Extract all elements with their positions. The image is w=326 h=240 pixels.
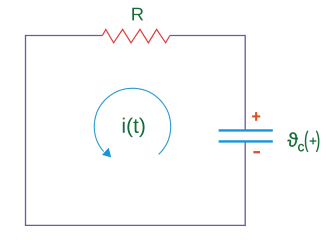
wire right upper to capacitor [244, 35, 246, 130]
capacitor top plate [219, 129, 273, 131]
current loop arc [94, 88, 170, 154]
resistor R zigzag [102, 29, 169, 42]
wire bottom [25, 224, 246, 226]
wire right lower from capacitor [244, 141, 246, 226]
label i(t) [123, 118, 145, 138]
label theta [287, 132, 297, 146]
wire left side [25, 36, 27, 226]
plus sign [252, 112, 260, 121]
capacitor bottom plate [219, 140, 273, 142]
minus sign [253, 151, 260, 153]
wire top-right segment [170, 35, 245, 37]
label plus in paren [310, 138, 316, 144]
wire top-left segment [25, 35, 103, 37]
current arrowhead [102, 148, 111, 158]
label R [132, 8, 143, 21]
label subscript c [298, 144, 304, 151]
label open paren [305, 131, 308, 152]
label close paren [316, 131, 319, 152]
